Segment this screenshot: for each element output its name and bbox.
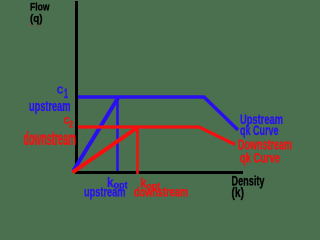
x-axis (Density)	[75, 171, 243, 174]
svg-text:qk Curve: qk Curve	[240, 150, 280, 166]
y-axis (Flow)	[75, 1, 78, 173]
stray red artifact dots below (q)	[31, 25, 33, 26]
svg-text:upstream: upstream	[84, 183, 126, 199]
svg-text:(q): (q)	[30, 13, 43, 25]
svg-text:Flow: Flow	[30, 1, 50, 13]
svg-text:downstream: downstream	[24, 129, 77, 150]
svg-text:downstream: downstream	[134, 183, 188, 199]
svg-text:qk Curve: qk Curve	[240, 122, 279, 138]
svg-text:upstream: upstream	[29, 98, 71, 115]
blue rising branch from origin to apex	[74, 98, 119, 171]
red k_opt downstream vertical guide	[136, 128, 139, 174]
blue k_opt upstream vertical guide	[116, 98, 119, 171]
svg-text:C: C	[57, 86, 63, 97]
blue upstream qk curve: Cf level line + plateau + descending branch	[78, 97, 238, 130]
svg-text:(k): (k)	[232, 184, 245, 200]
red downstream qk curve: Cd level line + plateau + descending branch	[78, 127, 235, 145]
red rising branch from origin to apex	[73, 128, 138, 173]
